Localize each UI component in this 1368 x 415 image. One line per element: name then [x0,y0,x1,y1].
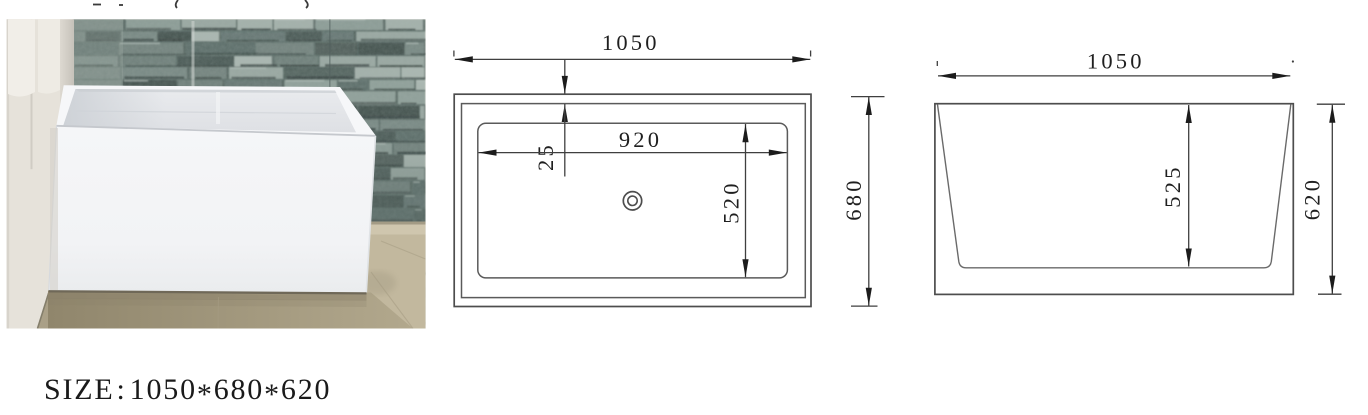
top view: drain outer circle [623,192,641,210]
photo: bathtub front face [49,126,376,293]
top view: dim 680 line [851,97,885,307]
svg-text:525: 525 [1160,164,1185,207]
top view: basin rounded rect [478,123,788,278]
photo: left wall [7,19,62,328]
front view: dim 620 line [1317,104,1345,294]
top remnant text fragments [93,0,308,8]
photo: right floor [60,222,426,329]
photo: stone wall top-left wash [73,19,123,97]
photo: left floor triangle [38,289,75,329]
top view: dim 920 line [479,150,787,156]
front view: dim 525 line [1186,105,1192,267]
photo: stone wall noise overlay [73,19,426,328]
svg-text:620: 620 [1299,177,1324,220]
svg-text:520: 520 [719,180,744,223]
photo: wall corner strip [60,19,74,289]
photo: bathtub shadow right [358,271,396,295]
top view: rim rect [462,104,806,298]
svg-text:SIZE:1050*680*620: SIZE:1050*680*620 [44,373,331,411]
photo: floor grout lines [218,241,426,329]
photo: stone wall right shading [335,125,426,222]
front view: dim 1050 line [937,60,1294,79]
photo: wall shadow left of tub [50,128,58,290]
svg-text:1050: 1050 [602,30,660,55]
photo: bathtub rim top [57,85,376,135]
photo: bathtub bottom edge [48,291,367,307]
photo: hanging panel 1 [8,19,35,97]
top view: drain inner circle [628,196,637,205]
front view: basin profile [938,105,1291,268]
photo: stone panel seam [329,19,331,87]
svg-text:920: 920 [619,127,662,152]
front view: outer rect [935,104,1293,295]
svg-text:680: 680 [841,177,866,220]
photo: stone wall texture [73,19,428,336]
photo: under-tub floor strip [48,272,413,329]
svg-text:25: 25 [533,142,558,171]
photo: bathtub interior [63,89,356,132]
top view: dim 1050 line [454,51,811,63]
top view: dim 520 line [742,124,748,277]
photo: hanging panel 2 [38,19,60,94]
top view: outer rect [454,94,811,306]
top view: dim 25 leader [562,59,568,176]
svg-text:1050: 1050 [1087,49,1145,74]
photo frame background [7,19,426,328]
photo: pipe on stone wall [192,21,195,87]
